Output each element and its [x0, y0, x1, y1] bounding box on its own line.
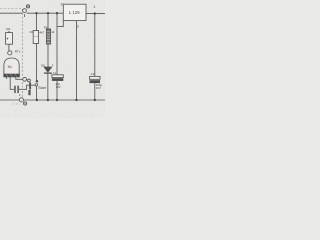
wire: R2 column from rail [47, 13, 49, 29]
wire: switch to ground rail [36, 86, 38, 100]
node: polarity mark - [24, 102, 27, 105]
svg-text:1k: 1k [51, 30, 55, 34]
wire stub below box [8, 44, 10, 51]
capacitor C3 plates (mic coupling) [14, 86, 16, 93]
dashed enclosure of microphone unit [0, 8, 22, 104]
svg-text:M1: M1 [6, 27, 10, 31]
svg-text:16V: 16V [56, 85, 61, 89]
node: polarity mark + mid [27, 79, 28, 81]
svg-text:4k7: 4k7 [39, 30, 44, 34]
wire: mic right terminal to connector [16, 77, 23, 79]
svg-text:2: 2 [61, 3, 63, 7]
svg-text:L 129: L 129 [69, 10, 80, 15]
wire: top supply rail [0, 12, 23, 14]
capacitor C2 plates [90, 76, 101, 79]
node: input terminal (top) [23, 9, 27, 13]
junction dots [35, 12, 96, 101]
capacitor C2 (output, electrolytic) wire [94, 14, 96, 77]
microphone N1 body [4, 58, 19, 74]
wire: R1 column from rail [35, 13, 37, 30]
svg-text:R1: R1 [30, 30, 34, 34]
labels [6, 3, 102, 98]
microphone M1 coupling box [6, 33, 13, 45]
svg-text:RT1: RT1 [15, 49, 21, 53]
resistor R2 [46, 29, 50, 44]
svg-text:C2: C2 [91, 72, 95, 76]
wire: regulator output [86, 13, 105, 15]
wire [27, 12, 64, 14]
wire: mic left terminal down [10, 77, 14, 89]
wire: pin3 jog below box [57, 21, 63, 27]
wire below R2 [47, 44, 49, 67]
svg-text:+: + [50, 72, 52, 76]
diode D1 [44, 67, 52, 72]
switch contact [35, 84, 38, 87]
background [0, 0, 105, 118]
resistor R1 [33, 31, 38, 44]
svg-text:Start: Start [38, 86, 46, 90]
capacitor C1 plates [52, 75, 63, 78]
wire: ground pin line [76, 21, 78, 100]
svg-text:R2: R2 [44, 25, 48, 29]
node: polarity mark + [26, 5, 29, 8]
svg-text:16V: 16V [96, 86, 101, 90]
wire below diode [47, 74, 49, 101]
wire: bottom ground rail [0, 99, 19, 101]
svg-text:C1: C1 [53, 71, 57, 75]
svg-text:DS: DS [41, 64, 45, 68]
wire stub above box [8, 31, 10, 33]
svg-text:3: 3 [77, 24, 79, 28]
wire: mic stub left [6, 77, 8, 79]
microphone base hatched [3, 74, 19, 78]
capacitor C1 (input, electrolytic) wire [56, 13, 58, 75]
wire below R1 [36, 44, 38, 81]
wire: tick below terminal [24, 14, 26, 17]
svg-text:1: 1 [93, 5, 95, 9]
node: ground terminal (bottom) [19, 98, 23, 102]
svg-text:N1: N1 [8, 65, 12, 69]
op IC U1 L129 box [63, 4, 86, 20]
node: mic connector circle [8, 51, 12, 55]
start switch actuator bar [29, 82, 31, 89]
node: mid connector circle [23, 77, 27, 81]
